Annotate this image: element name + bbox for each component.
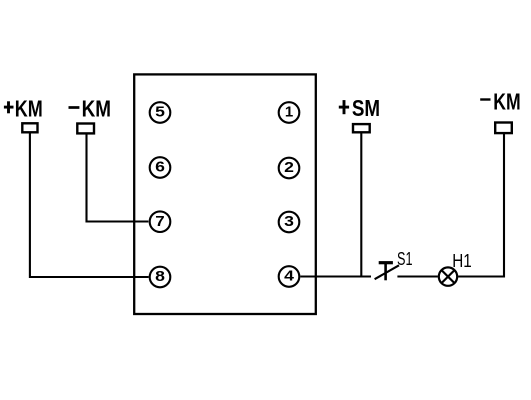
label +KM plus sign [4, 101, 14, 113]
svg-text:7: 7 [155, 213, 164, 230]
terminal square -KM right [495, 123, 512, 134]
label -KM left minus sign [69, 106, 80, 109]
wire switch to lamp [397, 275, 438, 277]
pin 8 [150, 267, 171, 288]
label +SM plus sign [339, 100, 349, 114]
pin 6 [150, 157, 171, 178]
svg-text:KM: KM [15, 95, 43, 121]
lamp H1 cross stroke 2 [442, 270, 455, 283]
svg-text:6: 6 [155, 159, 165, 176]
pin 3 [279, 212, 300, 233]
label -KM right minus sign [480, 98, 490, 100]
pin 1 [279, 102, 300, 123]
switch S1 actuator cap [379, 261, 393, 264]
svg-text:4: 4 [284, 268, 295, 285]
svg-text:KM: KM [493, 88, 520, 114]
svg-text:S1: S1 [397, 249, 413, 269]
relay box U1 [134, 74, 316, 314]
terminal square +SM [353, 124, 370, 132]
svg-text:1: 1 [285, 104, 293, 121]
svg-text:8: 8 [155, 268, 165, 285]
svg-text:5: 5 [155, 104, 165, 121]
svg-text:3: 3 [284, 213, 294, 230]
svg-text:SM: SM [352, 95, 380, 121]
wire -KM left to pin 7 [87, 134, 149, 222]
svg-text:KM: KM [82, 95, 111, 121]
terminal square -KM left [77, 124, 94, 134]
lamp H1 cross stroke 1 [442, 270, 455, 283]
wire +KM to pin 8 [30, 133, 149, 277]
pin 7 [150, 211, 171, 232]
wire pin 4 to switch [300, 275, 371, 277]
switch S1 blade [375, 265, 399, 279]
lamp H1 circle [439, 267, 457, 285]
wire +SM down to node [360, 132, 362, 276]
switch S1 actuator stem [384, 263, 387, 281]
terminal square +KM [22, 123, 37, 132]
pin 2 [279, 158, 300, 179]
pin 5 [150, 102, 171, 123]
svg-text:2: 2 [284, 159, 294, 176]
wire lamp to -KM right [458, 133, 504, 277]
svg-text:H1: H1 [452, 251, 472, 271]
pin 4 [279, 266, 300, 287]
